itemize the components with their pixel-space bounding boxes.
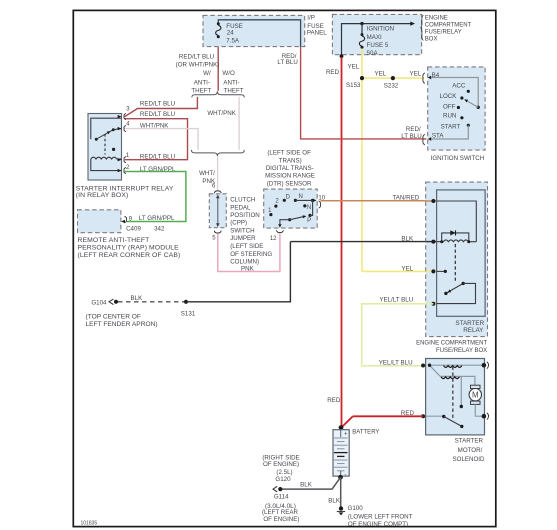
svg-text:12: 12 — [270, 236, 277, 242]
svg-text:G114: G114 — [274, 493, 289, 500]
svg-text:C409: C409 — [126, 225, 141, 232]
svg-text:(TOP CENTER OF: (TOP CENTER OF — [86, 314, 141, 321]
svg-text:YEL: YEL — [348, 64, 360, 71]
svg-text:LT BLU: LT BLU — [401, 133, 421, 140]
svg-text:(IN RELAY BOX): (IN RELAY BOX) — [76, 192, 129, 199]
svg-text:PNK: PNK — [202, 178, 216, 185]
svg-text:RED/LT BLU: RED/LT BLU — [140, 101, 175, 108]
svg-text:STARTER: STARTER — [455, 438, 484, 445]
svg-text:G120: G120 — [275, 476, 291, 483]
svg-text:LT GRN/PPL: LT GRN/PPL — [139, 215, 175, 222]
svg-text:YEL: YEL — [401, 265, 413, 272]
svg-text:LEFT FENDER APRON): LEFT FENDER APRON) — [86, 321, 158, 328]
svg-text:ANTI-: ANTI- — [223, 79, 239, 86]
svg-text:WHT/: WHT/ — [199, 170, 215, 177]
svg-text:CLUTCH: CLUTCH — [230, 197, 255, 204]
svg-text:PEDAL: PEDAL — [230, 204, 251, 211]
svg-text:FUSE 5: FUSE 5 — [367, 42, 389, 49]
svg-text:MISSION RANGE: MISSION RANGE — [265, 173, 315, 180]
svg-text:YEL/LT BLU: YEL/LT BLU — [379, 359, 413, 366]
svg-text:(LEFT SIDE OF: (LEFT SIDE OF — [267, 150, 311, 157]
svg-text:COLUMN): COLUMN) — [230, 259, 259, 266]
svg-text:OFF: OFF — [443, 104, 456, 111]
svg-text:PANEL: PANEL — [307, 30, 327, 37]
svg-text:COMPARTMENT: COMPARTMENT — [425, 22, 472, 28]
svg-text:TRANS): TRANS) — [279, 157, 302, 164]
svg-text:N: N — [299, 194, 303, 200]
svg-text:OF STEERING: OF STEERING — [230, 251, 272, 258]
svg-text:RED: RED — [327, 397, 341, 404]
svg-text:BOX: BOX — [425, 37, 438, 43]
svg-text:LT BLU: LT BLU — [277, 59, 297, 66]
svg-text:PNK: PNK — [241, 266, 255, 273]
svg-text:MOTOR/: MOTOR/ — [458, 447, 483, 454]
svg-text:G100: G100 — [348, 505, 364, 512]
svg-text:(LOWER LEFT FRONT: (LOWER LEFT FRONT — [348, 513, 413, 520]
svg-text:S131: S131 — [181, 310, 196, 317]
svg-text:THEFT: THEFT — [224, 87, 244, 94]
svg-text:(DTR) SENSOR: (DTR) SENSOR — [267, 180, 312, 187]
svg-text:YEL: YEL — [374, 70, 386, 77]
svg-text:D: D — [286, 195, 291, 201]
svg-text:+: + — [344, 432, 348, 438]
svg-text:ENGINE: ENGINE — [425, 16, 448, 22]
svg-text:BLK: BLK — [328, 497, 341, 504]
svg-text:PERSONALITY (RAP) MODULE: PERSONALITY (RAP) MODULE — [78, 245, 180, 252]
svg-text:S232: S232 — [384, 83, 399, 90]
svg-text:(LEFT REAR CORNER OF CAB): (LEFT REAR CORNER OF CAB) — [78, 252, 181, 259]
svg-text:OF ENGINE): OF ENGINE) — [263, 516, 299, 523]
svg-text:DIGITAL TRANS-: DIGITAL TRANS- — [266, 165, 314, 172]
svg-text:342: 342 — [154, 225, 165, 232]
svg-text:N: N — [307, 205, 311, 211]
svg-text:50A: 50A — [367, 50, 379, 57]
svg-text:101835: 101835 — [81, 520, 98, 526]
svg-text:RUN: RUN — [443, 113, 456, 120]
svg-text:POSITION: POSITION — [230, 212, 260, 219]
svg-text:RED/LT BLU: RED/LT BLU — [140, 111, 175, 118]
svg-text:SOLENOID: SOLENOID — [453, 456, 486, 463]
svg-text:JUMPER: JUMPER — [230, 235, 256, 242]
svg-text:THEFT: THEFT — [191, 87, 211, 94]
svg-text:P: P — [307, 218, 311, 224]
svg-text:BATTERY: BATTERY — [352, 430, 379, 436]
svg-text:WHT/PNK: WHT/PNK — [140, 123, 169, 130]
svg-text:ENGINE COMPARTMENT: ENGINE COMPARTMENT — [416, 341, 487, 347]
svg-text:-: - — [344, 472, 346, 478]
svg-text:ACC: ACC — [452, 82, 466, 89]
svg-text:RELAY: RELAY — [463, 327, 484, 334]
svg-text:W/O: W/O — [222, 70, 235, 77]
svg-text:SWITCH: SWITCH — [230, 228, 254, 235]
svg-text:STA: STA — [432, 132, 444, 139]
svg-text:RED/LT BLU: RED/LT BLU — [140, 153, 175, 160]
svg-text:MAXI: MAXI — [367, 34, 382, 41]
svg-text:RED/: RED/ — [406, 126, 421, 133]
svg-text:YEL/LT BLU: YEL/LT BLU — [379, 297, 413, 304]
svg-text:OF ENGINE): OF ENGINE) — [263, 461, 299, 468]
svg-text:(LEFT SIDE: (LEFT SIDE — [230, 243, 263, 250]
svg-text:FUSE/RELAY BOX: FUSE/RELAY BOX — [436, 348, 487, 354]
svg-text:M: M — [472, 391, 479, 400]
svg-text:G104: G104 — [91, 299, 107, 306]
svg-text:I/P: I/P — [307, 14, 315, 21]
svg-text:(OR WHT/PNK): (OR WHT/PNK) — [176, 61, 220, 68]
svg-text:TAN/RED: TAN/RED — [392, 194, 419, 201]
svg-text:YEL: YEL — [409, 70, 421, 77]
svg-text:WHT/PNK: WHT/PNK — [207, 110, 236, 117]
svg-text:RED: RED — [401, 410, 415, 417]
svg-text:BLK: BLK — [300, 482, 313, 489]
svg-text:LOCK: LOCK — [440, 93, 458, 100]
svg-text:IGNITION: IGNITION — [367, 26, 395, 33]
svg-text:W/: W/ — [203, 70, 211, 77]
svg-text:OF ENGINE COMPT): OF ENGINE COMPT) — [348, 521, 408, 528]
svg-text:(CPP): (CPP) — [230, 220, 247, 227]
svg-text:REMOTE ANTI-THEFT: REMOTE ANTI-THEFT — [78, 237, 150, 244]
svg-text:7.5A: 7.5A — [226, 38, 240, 45]
svg-text:START: START — [441, 123, 461, 130]
svg-text:RED/LT BLU: RED/LT BLU — [179, 53, 214, 60]
svg-text:ANTI-: ANTI- — [194, 79, 210, 86]
svg-text:BLK: BLK — [401, 236, 414, 243]
svg-text:BLK: BLK — [131, 295, 144, 302]
svg-text:24: 24 — [227, 30, 234, 37]
svg-text:S153: S153 — [346, 82, 361, 89]
svg-text:B4: B4 — [432, 72, 440, 79]
svg-text:IGNITION SWITCH: IGNITION SWITCH — [431, 155, 485, 162]
svg-text:FUSE/RELAY: FUSE/RELAY — [425, 30, 462, 36]
svg-text:RED: RED — [326, 69, 340, 76]
